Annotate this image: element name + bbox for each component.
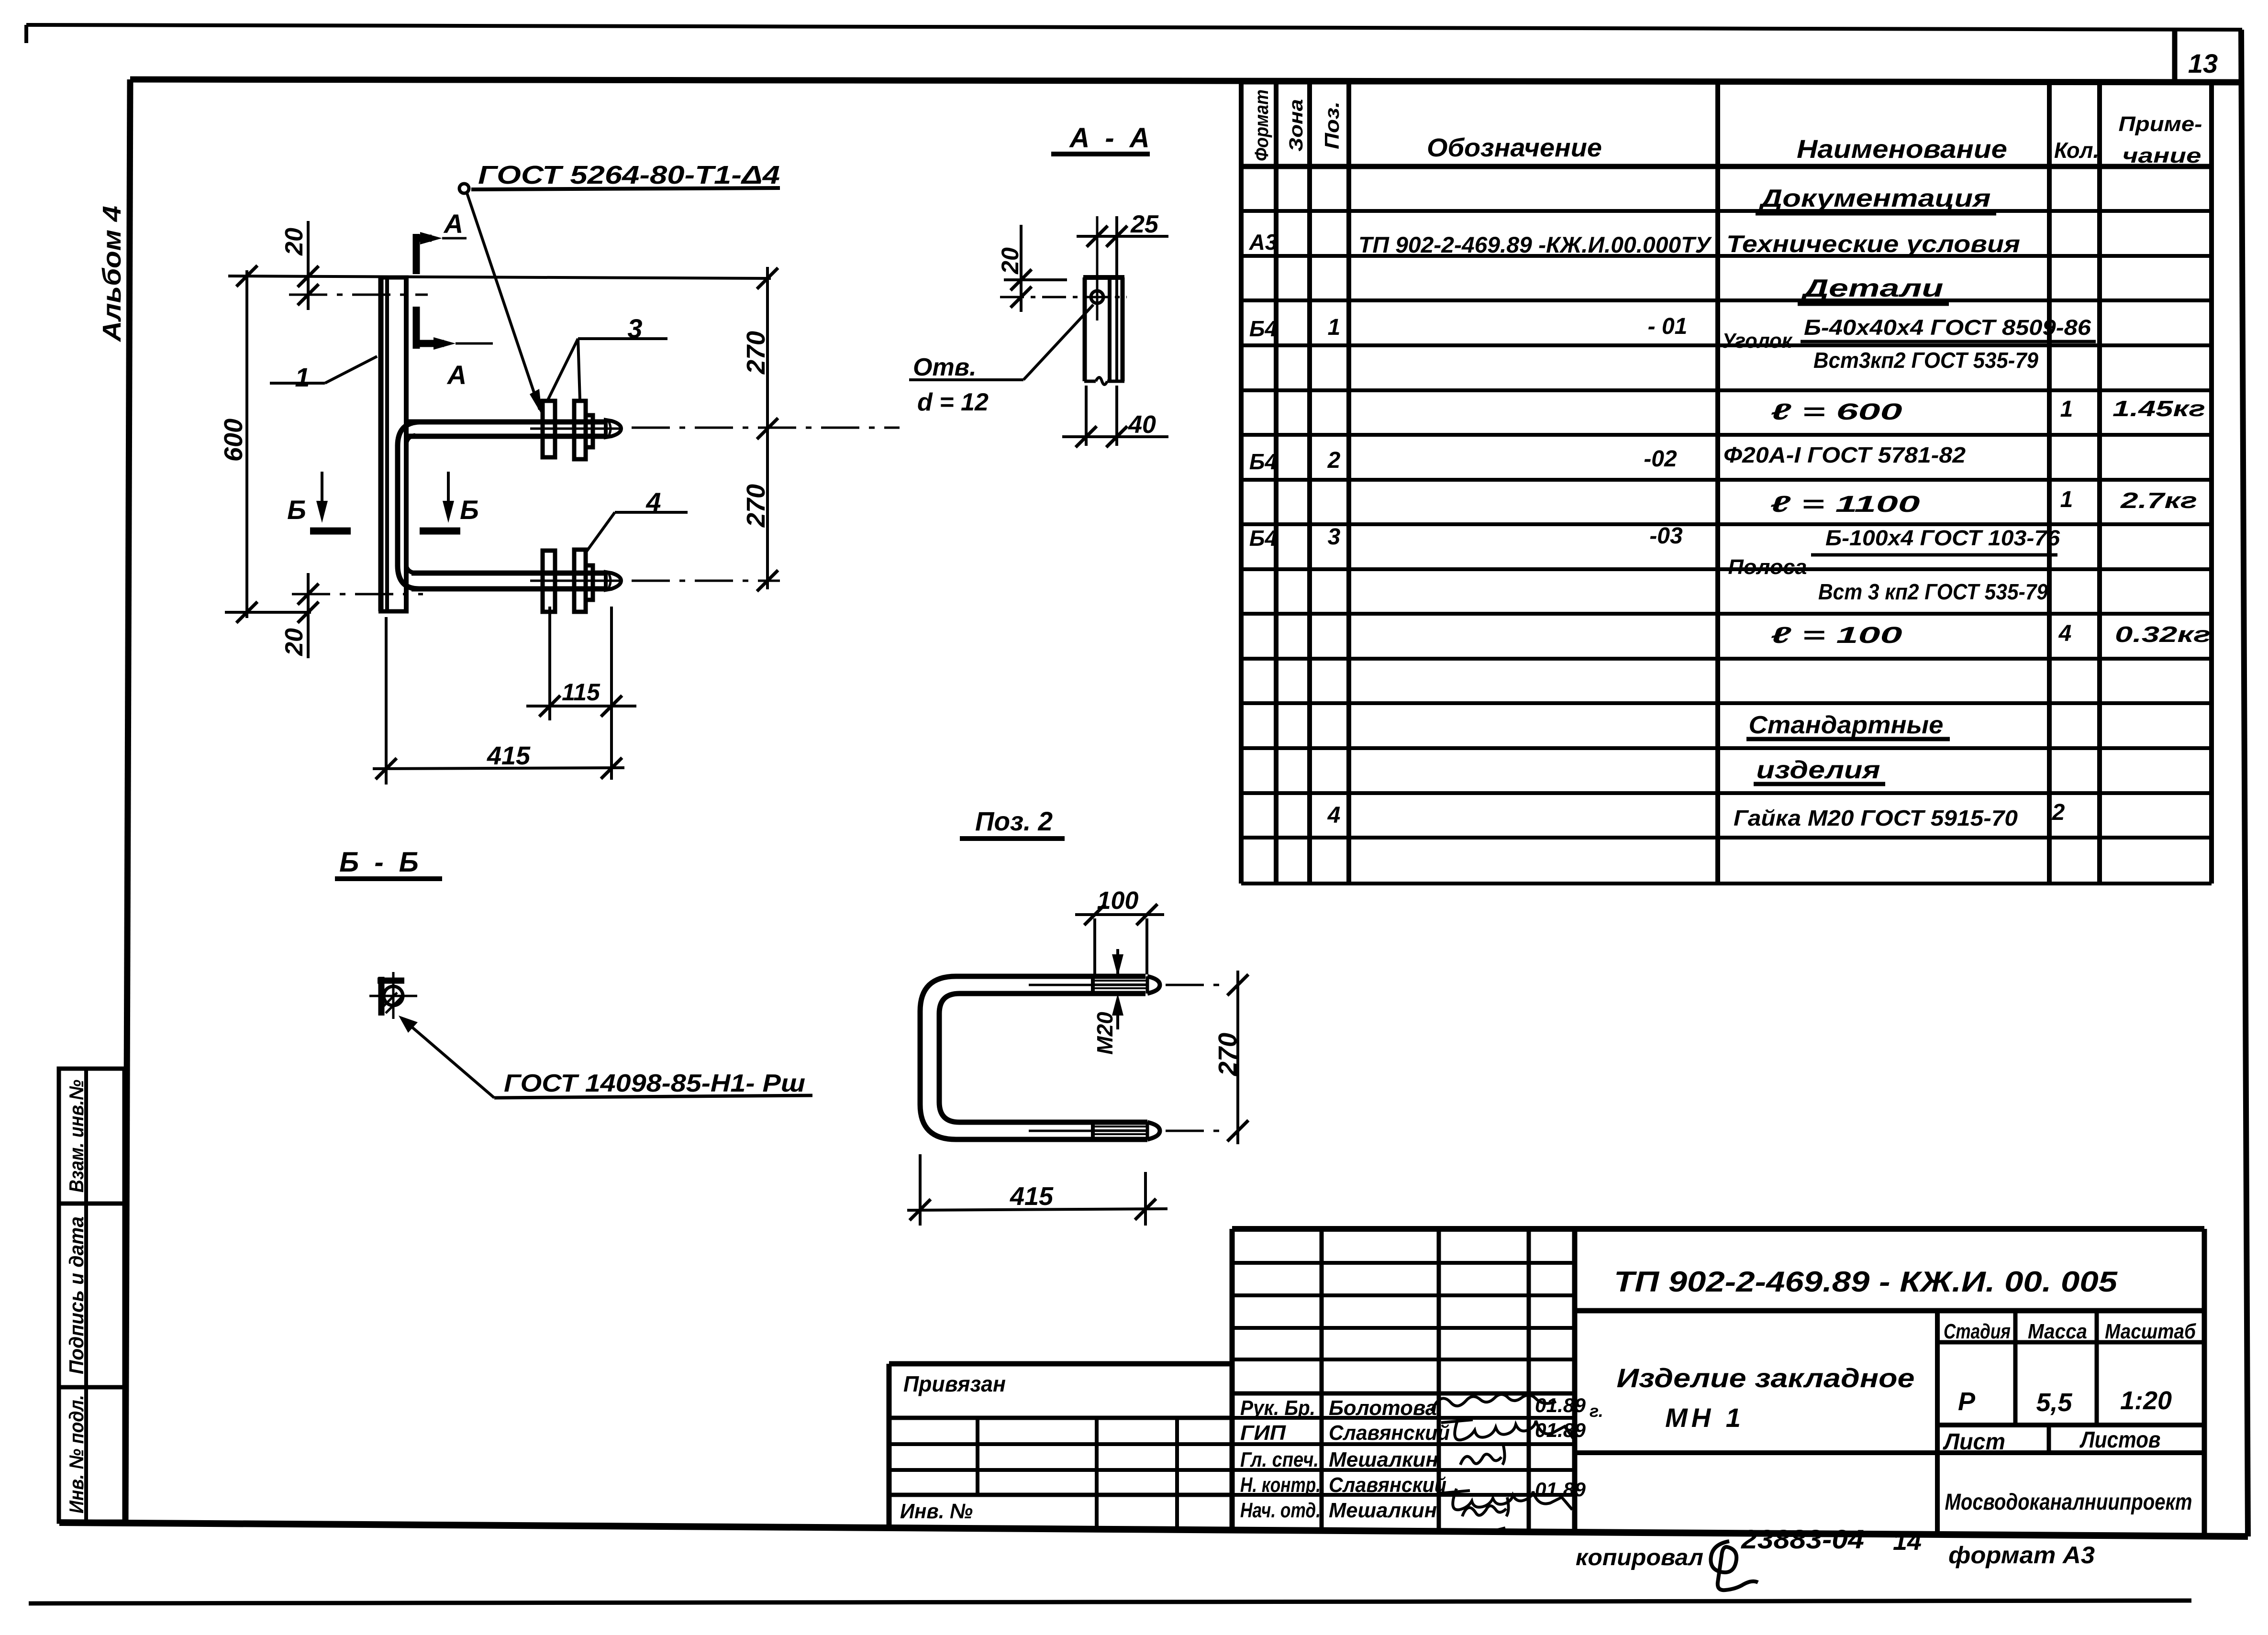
svg-text:чание: чание — [2123, 144, 2201, 167]
svg-text:Мешалкин: Мешалкин — [1329, 1448, 1438, 1471]
svg-text:23883-04: 23883-04 — [1741, 1524, 1864, 1554]
svg-text:М20: М20 — [1092, 1012, 1117, 1055]
svg-text:Мосводоканалниипроект: Мосводоканалниипроект — [1945, 1490, 2192, 1515]
svg-text:Отв.: Отв. — [913, 354, 977, 381]
svg-text:г.: г. — [1590, 1401, 1603, 1421]
svg-text:1: 1 — [2060, 397, 2073, 422]
svg-text:Б4: Б4 — [1249, 316, 1277, 341]
svg-text:А: А — [443, 209, 463, 239]
svg-text:25: 25 — [1130, 210, 1159, 238]
svg-text:ТП 902-2-469.89 -КЖ.И.00.000: ТП 902-2-469.89 -КЖ.И.00.000ТУ — [1358, 232, 1712, 257]
svg-text:Взам. инв.№: Взам. инв.№ — [65, 1080, 88, 1193]
svg-text:2: 2 — [1327, 448, 1341, 473]
svg-text:Б-100х4 ГОСТ 103-76: Б-100х4 ГОСТ 103-76 — [1825, 526, 2060, 550]
svg-text:Альбом 4: Альбом 4 — [98, 206, 126, 342]
svg-text:115: 115 — [562, 679, 600, 706]
svg-text:ℓ = 100: ℓ = 100 — [1771, 623, 1903, 648]
svg-text:Наименование: Наименование — [1797, 135, 2007, 164]
svg-text:Нач. отд.: Нач. отд. — [1240, 1499, 1321, 1522]
svg-text:14: 14 — [1893, 1527, 1922, 1556]
svg-text:Гайка М20 ГОСТ 5915-70: Гайка М20 ГОСТ 5915-70 — [1734, 806, 2018, 830]
svg-text:Мешалкин: Мешалкин — [1329, 1499, 1437, 1522]
svg-text:Лист: Лист — [1943, 1429, 2005, 1455]
svg-text:4: 4 — [1327, 803, 1341, 828]
svg-text:А3: А3 — [1249, 230, 1278, 254]
svg-text:Формат: Формат — [1251, 89, 1272, 161]
svg-text:МН 1: МН 1 — [1665, 1403, 1745, 1433]
svg-text:ГОСТ 14098-85-Н1- Рш: ГОСТ 14098-85-Н1- Рш — [504, 1070, 805, 1097]
svg-text:Поз. 2: Поз. 2 — [975, 806, 1053, 836]
svg-text:1: 1 — [1328, 315, 1341, 340]
svg-text:Славянский: Славянский — [1329, 1473, 1446, 1497]
svg-text:Полоса: Полоса — [1728, 555, 1807, 579]
svg-text:40: 40 — [1128, 411, 1156, 439]
svg-text:Вст 3 кп2 ГОСТ 535-79: Вст 3 кп2 ГОСТ 535-79 — [1818, 579, 2048, 604]
svg-text:415: 415 — [487, 741, 531, 770]
svg-text:Болотова: Болотова — [1329, 1396, 1437, 1420]
svg-text:3: 3 — [1328, 524, 1341, 550]
svg-text:100: 100 — [1097, 887, 1139, 915]
svg-text:1:20: 1:20 — [2120, 1386, 2172, 1415]
svg-text:Изделие закладное: Изделие закладное — [1617, 1363, 1915, 1393]
svg-text:-02: -02 — [1644, 446, 1677, 472]
svg-text:2.7кг: 2.7кг — [2120, 488, 2197, 513]
svg-text:Б: Б — [460, 495, 479, 525]
svg-text:изделия: изделия — [1757, 756, 1880, 784]
svg-text:270: 270 — [742, 484, 770, 528]
svg-text:Зона: Зона — [1286, 99, 1307, 152]
svg-text:5,5: 5,5 — [2036, 1388, 2072, 1417]
svg-text:270: 270 — [742, 331, 770, 375]
svg-text:копировал: копировал — [1576, 1545, 1703, 1570]
svg-text:20: 20 — [280, 628, 308, 656]
svg-text:Ф20А-I ГОСТ 5781-82: Ф20А-I ГОСТ 5781-82 — [1723, 442, 1966, 467]
svg-text:0.32кг: 0.32кг — [2115, 622, 2211, 647]
svg-text:Приме-: Приме- — [2119, 112, 2202, 136]
svg-text:20: 20 — [997, 247, 1023, 275]
svg-text:Уголок: Уголок — [1722, 329, 1793, 353]
svg-text:Р: Р — [1958, 1387, 1976, 1416]
svg-text:А - А: А - А — [1068, 122, 1153, 154]
svg-text:Привязан: Привязан — [903, 1371, 1006, 1396]
svg-text:Масса: Масса — [2028, 1320, 2087, 1343]
svg-text:Поз.: Поз. — [1321, 101, 1343, 149]
svg-text:Б - Б: Б - Б — [339, 847, 422, 878]
svg-text:Рук. Бр.: Рук. Бр. — [1240, 1396, 1315, 1420]
svg-text:2: 2 — [2052, 800, 2065, 825]
svg-text:13: 13 — [2188, 48, 2218, 78]
svg-text:Б-40х40х4 ГОСТ 8509-86: Б-40х40х4 ГОСТ 8509-86 — [1804, 315, 2091, 340]
svg-text:Обозначение: Обозначение — [1427, 133, 1602, 162]
svg-text:Б4: Б4 — [1249, 449, 1277, 474]
svg-text:ТП 902-2-469.89 - КЖ.И. 00.: ТП 902-2-469.89 - КЖ.И. 00. 005 — [1614, 1266, 2118, 1298]
svg-text:600: 600 — [219, 419, 248, 462]
svg-text:1.45кг: 1.45кг — [2112, 396, 2205, 421]
svg-text:А: А — [446, 360, 467, 390]
svg-text:Кол.: Кол. — [2054, 138, 2099, 163]
svg-text:Стандартные: Стандартные — [1749, 711, 1944, 739]
svg-text:Документация: Документация — [1758, 185, 1991, 212]
svg-text:Технические условия: Технические условия — [1726, 231, 2020, 257]
svg-text:формат А3: формат А3 — [1948, 1542, 2095, 1569]
svg-text:4: 4 — [2058, 621, 2072, 646]
svg-text:Инв. №: Инв. № — [900, 1500, 973, 1523]
svg-text:ℓ = 600: ℓ = 600 — [1771, 399, 1903, 425]
svg-text:01.89: 01.89 — [1535, 1394, 1586, 1416]
svg-text:ℓ = 1100: ℓ = 1100 — [1770, 492, 1921, 517]
svg-text:- 01: - 01 — [1648, 314, 1688, 339]
svg-text:ГОСТ 5264-80-Т1-Δ4: ГОСТ 5264-80-Т1-Δ4 — [478, 161, 780, 189]
svg-text:415: 415 — [1010, 1182, 1054, 1211]
svg-text:1: 1 — [2060, 487, 2073, 512]
svg-text:1: 1 — [295, 362, 310, 392]
svg-text:Инв. № подл.: Инв. № подл. — [65, 1395, 88, 1513]
svg-text:Б4: Б4 — [1249, 526, 1277, 551]
svg-text:Н. контр.: Н. контр. — [1240, 1473, 1321, 1497]
svg-text:Гл. спеч.: Гл. спеч. — [1240, 1448, 1319, 1471]
svg-text:Славянский: Славянский — [1329, 1421, 1450, 1445]
svg-text:Листов: Листов — [2079, 1427, 2161, 1453]
svg-text:Масштаб: Масштаб — [2105, 1320, 2197, 1343]
svg-text:-03: -03 — [1649, 523, 1683, 549]
svg-text:Подпись и дата: Подпись и дата — [65, 1216, 88, 1374]
svg-text:d = 12: d = 12 — [917, 388, 989, 416]
svg-text:Стадия: Стадия — [1944, 1320, 2011, 1343]
svg-text:20: 20 — [280, 228, 308, 256]
svg-text:Детали: Детали — [1801, 275, 1944, 302]
svg-text:Б: Б — [287, 495, 306, 525]
svg-text:ГИП: ГИП — [1240, 1421, 1286, 1445]
svg-text:270: 270 — [1213, 1033, 1242, 1076]
svg-text:Вст3кп2 ГОСТ 535-79: Вст3кп2 ГОСТ 535-79 — [1813, 348, 2038, 373]
